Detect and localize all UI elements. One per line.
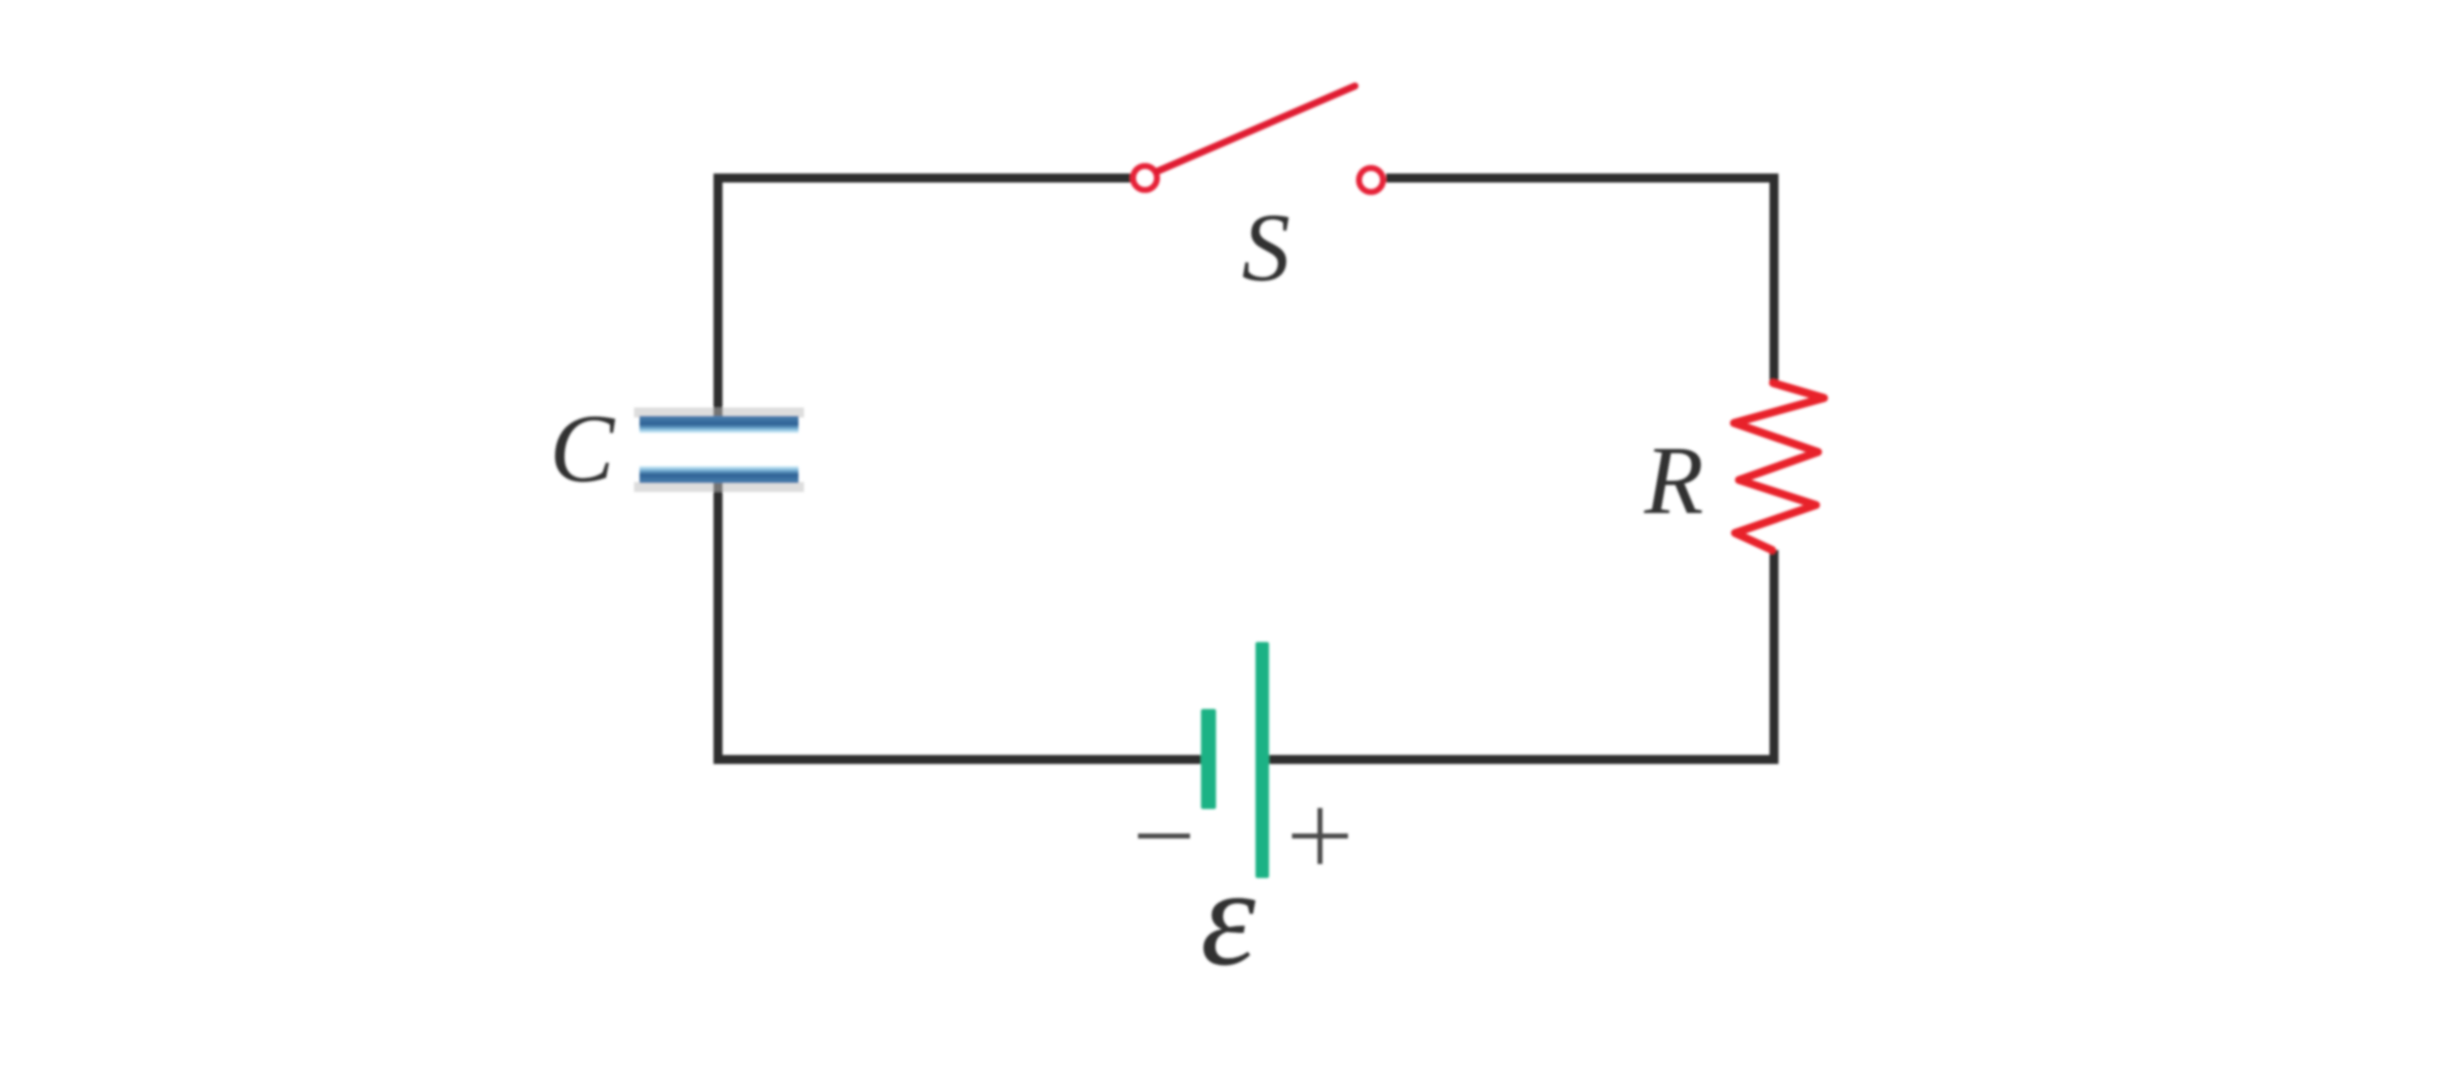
capacitor C bottom plate — [640, 466, 799, 483]
battery long plate (positive) — [1256, 642, 1270, 878]
wire bottom-right + right lower (battery positive to resistor bottom) — [1263, 550, 1774, 760]
wire top-left + left upper (switch contact to capacitor top plate) — [718, 178, 1132, 417]
svg-text:R: R — [1643, 427, 1703, 534]
switch S right contact — [1359, 168, 1383, 192]
svg-text:S: S — [1242, 194, 1291, 301]
capacitor C top plate shadow — [634, 408, 804, 418]
plus sign — [1292, 808, 1348, 864]
wire top-right + right upper (switch contact to resistor top) — [1386, 178, 1774, 385]
svg-text:C: C — [550, 395, 616, 502]
battery short plate (negative) — [1201, 709, 1216, 809]
switch S arm — [1158, 86, 1355, 171]
capacitor C bottom plate shadow — [634, 482, 804, 492]
capacitor C top plate — [640, 416, 799, 433]
svg-text:ε: ε — [1200, 840, 1256, 995]
resistor R zigzag — [1734, 383, 1824, 550]
switch S left contact — [1133, 166, 1157, 190]
wire left lower + bottom-left (capacitor bottom plate to battery negative) — [718, 481, 1206, 760]
minus sign — [1138, 834, 1190, 839]
